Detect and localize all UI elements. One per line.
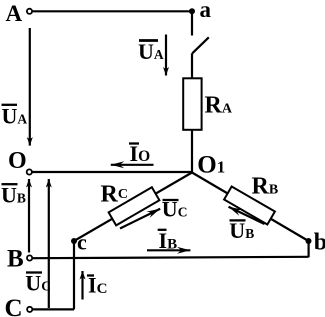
svg-text:UA: UA [2, 103, 28, 128]
arrow UA at switch [165, 35, 167, 76]
svg-text:IO: IO [130, 141, 151, 166]
svg-text:b: b [314, 230, 325, 256]
wire A to a [33, 10, 192, 12]
arrow UB left [28, 179, 30, 253]
svg-text:RB: RB [252, 174, 279, 200]
svg-text:a: a [200, 0, 212, 22]
arrow Io [111, 164, 154, 166]
arrow IB [147, 249, 190, 251]
terminal A [27, 9, 32, 14]
svg-text:UC: UC [25, 271, 51, 296]
svg-text:B: B [7, 246, 24, 273]
terminal O [27, 169, 32, 174]
wire RA to O1 [191, 130, 193, 173]
svg-text:UB: UB [229, 218, 254, 243]
resistor RB [224, 186, 275, 224]
terminal C [27, 307, 32, 312]
wire a to switch [191, 11, 193, 35]
arrow UB slanted [229, 207, 265, 224]
arrow UC slanted [120, 209, 160, 229]
svg-text:UB: UB [1, 183, 26, 208]
terminal B [27, 255, 32, 260]
svg-text:O1: O1 [197, 151, 225, 178]
wire b down [308, 241, 310, 257]
svg-text:A: A [6, 1, 23, 26]
svg-text:RA: RA [205, 93, 233, 119]
svg-text:C: C [5, 295, 23, 317]
svg-text:O: O [8, 148, 27, 174]
wire C up to c [73, 241, 75, 309]
resistor RC [109, 187, 160, 225]
arrow IC [81, 271, 83, 300]
wire O1 to c [74, 173, 192, 242]
wire C right [33, 308, 74, 310]
resistor RA [183, 78, 201, 130]
node b [306, 238, 312, 244]
svg-text:IB: IB [159, 228, 178, 253]
arrow UA left [29, 28, 31, 146]
switch S blade [192, 37, 209, 53]
arrow UC left [48, 179, 50, 308]
node c [71, 238, 77, 244]
wire O to O1 [32, 171, 192, 173]
wire O1 to b [192, 173, 309, 242]
node a [189, 8, 195, 14]
svg-text:c: c [77, 230, 87, 255]
wire B to b [33, 257, 309, 258]
svg-text:UA: UA [138, 39, 164, 64]
wire switch to RA [191, 53, 193, 79]
